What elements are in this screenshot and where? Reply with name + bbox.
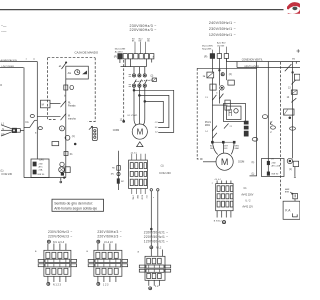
terminal row 1 circles (129, 74, 147, 77)
svg-text:MAN: MAN (205, 124, 210, 127)
TB1 top stubs (48, 244, 66, 251)
motor M2 circle (216, 153, 233, 170)
node dot bottom (63, 177, 65, 179)
wire drops jumper to switch (134, 67, 145, 74)
TB2 left tabs (88, 259, 94, 262)
contactor inner marks (229, 109, 232, 116)
svg-text:Ver/GN: Ver/GN (217, 44, 225, 47)
dashed boundary right (280, 62, 282, 199)
svg-text:Parada: Parada (68, 105, 76, 108)
wire ladder3 (292, 62, 294, 159)
wire drops labels to strip (135, 42, 146, 54)
node dot ladder3 (292, 72, 294, 74)
aux box left (52, 142, 59, 146)
svg-text:CONEXION VENTIL: CONEXION VENTIL (242, 59, 264, 61)
svg-text:(2): (2) (151, 76, 154, 78)
wire meter down (294, 167, 296, 177)
svg-text:Marron/BN: Marron/BN (202, 45, 213, 48)
svg-text:N U L2 L3: N U L2 L3 (53, 241, 65, 244)
grid MID bottom stubs (132, 189, 145, 195)
node dot TB3 lead (150, 228, 152, 230)
svg-text:marcha: marcha (68, 118, 76, 121)
terminal strip g2 cell2 (217, 54, 221, 59)
node dot loop3 (144, 101, 146, 103)
wire ladder seg3 (65, 114, 67, 178)
wire drop PE (119, 59, 121, 63)
wire plug lead PE (1, 132, 12, 136)
svg-text:ATC: ATC (39, 165, 44, 168)
thermal LR6-2 pad2 (267, 172, 269, 175)
wire motor lead 2 (138, 87, 140, 124)
cross mark top right (297, 49, 300, 52)
component small box below timer (64, 85, 68, 90)
svg-text:RC: RC (121, 181, 125, 183)
svg-text:4J: 4J (155, 132, 157, 134)
wire ladder top (65, 79, 67, 101)
grid G2 row1 cells (217, 186, 220, 192)
box right of meter (293, 161, 298, 166)
note box sentido (52, 199, 104, 211)
svg-text:(1): (1) (161, 164, 164, 167)
logo red swoosh top (287, 2, 300, 9)
svg-text:Sentido de giro del motor:: Sentido de giro del motor: (54, 202, 93, 206)
terminal strip X2 PE cell (118, 54, 122, 59)
relay box g2 (210, 84, 216, 90)
TB3 row2 cells (147, 273, 151, 278)
wire cross g2 (212, 104, 227, 106)
wire strip2 col lower (218, 90, 220, 104)
svg-text:Azul BU/: Azul BU/ (217, 42, 226, 45)
grid MID outer (129, 160, 148, 188)
svg-text:FNO: FNO (136, 195, 138, 200)
svg-text:M: M (221, 157, 229, 167)
svg-text:U L2 L3: U L2 L3 (104, 241, 113, 244)
relay KA box (283, 201, 300, 219)
svg-text:CA: CA (25, 121, 29, 124)
TB1 left tabs (38, 259, 44, 262)
svg-text:GRI: GRI (224, 148, 228, 150)
TB1 top terminal labels (47, 240, 50, 243)
contact blade strip2 col (219, 94, 223, 99)
wire strip3 to bus (225, 58, 227, 61)
TB2 top PE (97, 240, 100, 243)
svg-text:808 90: 808 90 (38, 174, 45, 176)
coil circle M1 (65, 135, 70, 140)
svg-text:KV42 230: KV42 230 (159, 171, 171, 175)
relay box M left (41, 100, 51, 108)
plug box right (293, 193, 298, 198)
shield loop outer (134, 90, 174, 132)
svg-text:220V/50Hz/1 ~: 220V/50Hz/1 ~ (144, 235, 168, 239)
wire bus tick (236, 62, 238, 68)
contactor assembly outer (224, 104, 246, 122)
svg-text:120V/60Hz/1 ~: 120V/60Hz/1 ~ (209, 33, 236, 37)
pump circle (59, 167, 65, 173)
TB2 bottom stubs (98, 276, 116, 282)
arrow to plug (290, 192, 293, 194)
svg-text:ATC 22A: ATC 22A (272, 165, 281, 168)
wire ladder g2 (211, 78, 213, 142)
grid MID row2 cells (130, 171, 133, 176)
component box l3 (291, 90, 297, 94)
svg-text:Marron/BN: Marron/BN (115, 48, 126, 51)
svg-text:22A: 22A (39, 168, 43, 171)
node oval right (271, 126, 276, 129)
wire fan bus 2 (237, 67, 300, 69)
component chain vertical wire (118, 151, 120, 190)
svg-text:PULS: PULS (205, 122, 211, 124)
wire rail x37 (36, 62, 38, 160)
switch blade fan (285, 64, 292, 71)
pilot circle small (60, 162, 64, 166)
TB3 top stubs (151, 246, 162, 257)
grid MID top stubs (132, 154, 145, 160)
wire rail x24 (23, 68, 25, 178)
logo red swoosh bottom (288, 9, 301, 14)
svg-text:3C: 3C (155, 127, 158, 129)
TB3 bottom PE (149, 287, 152, 290)
svg-text:(2): (2) (229, 73, 232, 76)
connector X1 socket body (17, 129, 21, 133)
terminal marks right (244, 121, 248, 124)
svg-text:Anti-horario segun solida e: Anti-horario segun solida eje (54, 206, 97, 210)
enclosure pump unit (197, 68, 256, 176)
wire plug lead L1 (1, 125, 12, 129)
wire motor left (203, 161, 216, 163)
wire plug to rail (20, 129, 24, 131)
PE circle g2 (221, 73, 224, 76)
contactor box g2 (227, 106, 242, 119)
TB1 row2 cells (46, 268, 50, 274)
TB1 row1 cells (46, 252, 50, 258)
svg-text:Azul/BU: Azul/BU (115, 50, 123, 53)
switch CA blade (30, 120, 35, 127)
wire curves to motor (212, 142, 234, 154)
TB2 row1 cells (96, 252, 100, 258)
svg-text:4 4 4 4: 4 4 4 4 (215, 179, 222, 181)
wire to switch CA (24, 127, 30, 129)
node E2 oval (38, 127, 42, 130)
wire into pad2 (267, 165, 269, 172)
TB2 bottom PE (97, 282, 100, 285)
wire drop strip2 (218, 58, 220, 85)
terminal row 2 circles (129, 84, 147, 87)
contact blades lower g2 (212, 126, 217, 139)
chain capacitor block (117, 178, 120, 183)
svg-text:AV42 12V: AV42 12V (242, 205, 253, 208)
node dot l3 (289, 117, 291, 119)
title border rule (0, 9, 284, 11)
svg-text:230/: 230/ (39, 163, 44, 165)
TB1 bottom stubs (48, 276, 66, 282)
thermal LR6 board 2 box (262, 159, 285, 177)
pump box (65, 167, 70, 173)
terminal strip g2 cell3 (224, 54, 228, 59)
thermal LR6 board box (31, 159, 49, 178)
grid G2 outer (216, 184, 233, 211)
TB1 bar ticks (48, 259, 66, 267)
arrow to connector (89, 126, 93, 129)
node dots motor feed (211, 141, 214, 144)
node C2 oval (262, 115, 267, 119)
TB3 left tabs (139, 265, 145, 268)
node dot S0 (65, 62, 66, 63)
wire label drops g2 (212, 47, 226, 54)
node E1 oval (30, 115, 34, 118)
capacitor box right (294, 74, 300, 80)
svg-text:AV42 230V: AV42 230V (241, 193, 253, 196)
svg-text:230V/50Hz/1 ~: 230V/50Hz/1 ~ (144, 230, 168, 234)
TB2 row2 cells (96, 268, 100, 274)
wire right feed 1 (267, 62, 269, 162)
svg-text:(H): (H) (111, 174, 114, 176)
connector 3pin pins (94, 130, 96, 132)
svg-text:M: M (42, 102, 44, 106)
thermal LR6 pad2 (33, 170, 36, 174)
timer contact arrow (83, 71, 86, 74)
svg-text:1 2 3: 1 2 3 (103, 283, 109, 286)
svg-text:M: M (68, 116, 70, 118)
svg-text:~—: ~— (1, 30, 7, 34)
logo center dot (292, 7, 297, 11)
shield loop mid (139, 95, 169, 127)
thermal LR6 pad1 (33, 162, 36, 166)
KA contact symbol (292, 213, 297, 217)
svg-text:AG: AG (68, 72, 72, 75)
svg-text:MAR: MAR (235, 147, 240, 150)
TB3 right tabs (165, 265, 171, 268)
TB1 body (44, 250, 71, 276)
svg-text:M: M (137, 128, 144, 137)
svg-text:B N 3L2: B N 3L2 (214, 221, 223, 223)
svg-text:LR6: LR6 (39, 158, 44, 161)
wire bottom return (24, 177, 66, 179)
svg-text:808 90: 808 90 (272, 173, 279, 175)
svg-text:230V/50Hz/1 ~: 230V/50Hz/1 ~ (209, 27, 236, 31)
meter circle l3 (287, 158, 292, 163)
svg-text:220V/60Hz/3 ~: 220V/60Hz/3 ~ (130, 28, 157, 32)
contact marcha blade (61, 114, 67, 121)
TB2 body (94, 250, 122, 276)
lamp oval (70, 85, 74, 89)
dashed enclosure caja de mando (48, 58, 96, 122)
grid G2 row3 cells (217, 201, 220, 207)
motor M1 circle (132, 124, 147, 139)
tick below (294, 176, 296, 178)
component box g2 right (225, 100, 230, 110)
wire branch marcha (37, 116, 60, 118)
cable lead right TB3 circle (157, 189, 159, 191)
wire switch CA to rail (35, 119, 38, 121)
svg-text:120V/60Hz/1 ~: 120V/60Hz/1 ~ (144, 240, 168, 244)
svg-text:NEG: NEG (210, 148, 215, 150)
svg-text:~—: ~— (1, 24, 7, 28)
wire bus motor feed (212, 141, 234, 143)
svg-text:N 1 2 3: N 1 2 3 (53, 283, 62, 286)
ground tick (60, 178, 62, 181)
svg-text:220V/60Hz/3 ~: 220V/60Hz/3 ~ (97, 235, 121, 239)
svg-text:U1 V1 W1: U1 V1 W1 (128, 115, 139, 117)
svg-text:(1): (1) (72, 135, 75, 138)
grid MID row1 cells (130, 163, 133, 169)
chain lamp circle (117, 172, 120, 175)
svg-text:KV42: KV42 (141, 195, 143, 200)
label 1F arrow (270, 121, 273, 124)
TB2 bus bar 2 (95, 264, 121, 267)
timer clock face (75, 70, 80, 75)
svg-text:K A: K A (285, 208, 291, 212)
terminal blob (61, 172, 64, 175)
TB3 bus bar 2 (146, 269, 164, 272)
svg-text:C03M: C03M (238, 161, 244, 164)
aux box g2 (228, 80, 234, 85)
breaker linkage dashed (135, 80, 152, 82)
svg-text:230V/50Hz/3 ~: 230V/50Hz/3 ~ (97, 230, 121, 234)
TB1 bus bar 2 (45, 264, 70, 267)
motor M1 delta symbol (137, 142, 143, 147)
node dot g2 (219, 70, 221, 72)
coil circle g2 (220, 86, 224, 90)
wire motor lead 1 (134, 87, 136, 125)
node oval l3 (290, 127, 296, 130)
terminal strip g2 PE (210, 54, 214, 59)
TB3 bottom stubs (149, 280, 160, 286)
svg-text:230/: 230/ (272, 162, 277, 164)
TB1 bottom PE (47, 282, 50, 285)
contact blade g2 (212, 95, 216, 100)
wire bus tick right (295, 62, 297, 64)
svg-text:BRN: BRN (285, 192, 290, 194)
wire plug to KA (294, 199, 296, 201)
chain resistor box (117, 166, 121, 171)
svg-text:(P): (P) (114, 55, 118, 59)
TB3 row1 cells (147, 258, 151, 264)
terminal strip X2 cells (123, 54, 127, 59)
contact parada blade (61, 101, 67, 108)
wire drops below strip (125, 59, 152, 67)
wire drop strip1 (211, 58, 213, 72)
TB2 right tabs (122, 259, 128, 262)
thermal LR6-2 pad1 (267, 161, 269, 164)
wire bus N (0, 67, 24, 69)
contact blade l3b (291, 98, 296, 102)
wire branch parada (50, 103, 61, 105)
connector X1 plug body (12, 128, 16, 132)
TB3 top PE (150, 246, 153, 249)
wire ladder seg2 (65, 101, 67, 114)
PE symbol grid (222, 221, 225, 224)
TB1 right tabs (71, 259, 77, 262)
timer AG box (66, 66, 89, 79)
svg-text:240V/50Hz/1 ~: 240V/50Hz/1 ~ (209, 21, 236, 25)
svg-text:LR: LR (271, 159, 274, 161)
svg-text:4 4 4 4: 4 4 4 4 (131, 152, 137, 154)
switch S0 blade top (62, 63, 67, 69)
node C3 oval (252, 138, 258, 142)
node dot shield (123, 120, 125, 122)
grid MID row3 cells (130, 179, 133, 185)
contact blade mid g2 (224, 124, 229, 129)
TB3 body (145, 256, 165, 280)
wire fan bus 1 (226, 61, 300, 63)
svg-text:(P): (P) (204, 54, 208, 58)
TB2 bar ticks (98, 259, 116, 267)
relay box l3 (284, 109, 294, 115)
grid G2 bottom stubs (217, 211, 231, 218)
grid G2 row2 cells (217, 194, 220, 199)
dashed shield boundary mid (123, 60, 125, 121)
contactor coil circle (234, 109, 238, 113)
wire TB3 lead 1 (150, 191, 152, 246)
contact blade l3a (292, 80, 296, 84)
component F bracket (64, 152, 68, 156)
svg-text:CAJA DE MANDO: CAJA DE MANDO (75, 51, 99, 55)
node dot right (74, 143, 76, 145)
breaker blades row (134, 80, 147, 84)
contact protector g2 (207, 72, 214, 78)
wire drop strip3 (225, 58, 227, 80)
TB2 bus bar 1 (95, 259, 121, 262)
wire jumper below strip (121, 66, 147, 68)
cable lead left TB3 circle (150, 189, 152, 191)
wire TB3 lead 2 (157, 191, 159, 246)
motor protector box (152, 78, 156, 81)
svg-text:KV42 230: KV42 230 (2, 173, 13, 176)
TB1 bus bar 1 (45, 259, 70, 262)
pilot circle K (60, 126, 65, 131)
node dot loop2 (139, 95, 141, 97)
wire bus L (0, 61, 37, 63)
wire plug lead N (1, 129, 12, 131)
TB3 bar ticks (149, 265, 160, 272)
svg-text:(1): (1) (252, 162, 255, 164)
svg-text:U / 2: U / 2 (245, 199, 251, 202)
svg-text:(1): (1) (252, 174, 255, 176)
TB2 top stubs (98, 244, 116, 251)
svg-text:(1): (1) (289, 169, 292, 171)
grid G2 top stubs (217, 181, 231, 184)
svg-text:C03M: C03M (113, 129, 119, 132)
svg-text:230V/50Hz/3 ~: 230V/50Hz/3 ~ (48, 230, 72, 234)
wire bus to box (256, 62, 258, 69)
svg-text:17NC: 17NC (132, 195, 134, 200)
svg-text:220V/60Hz/3 ~: 220V/60Hz/3 ~ (48, 235, 72, 239)
connector 3pin body (92, 128, 97, 141)
svg-text:Negro/BK: Negro/BK (202, 47, 212, 50)
shield loop inner (145, 101, 164, 122)
node dot loop1 (133, 89, 135, 91)
svg-text:N L2: N L2 (156, 247, 162, 250)
svg-text:1 2: 1 2 (155, 285, 159, 288)
wire motor lead 3 (143, 87, 145, 125)
TB3 bus bar 1 (146, 265, 164, 268)
